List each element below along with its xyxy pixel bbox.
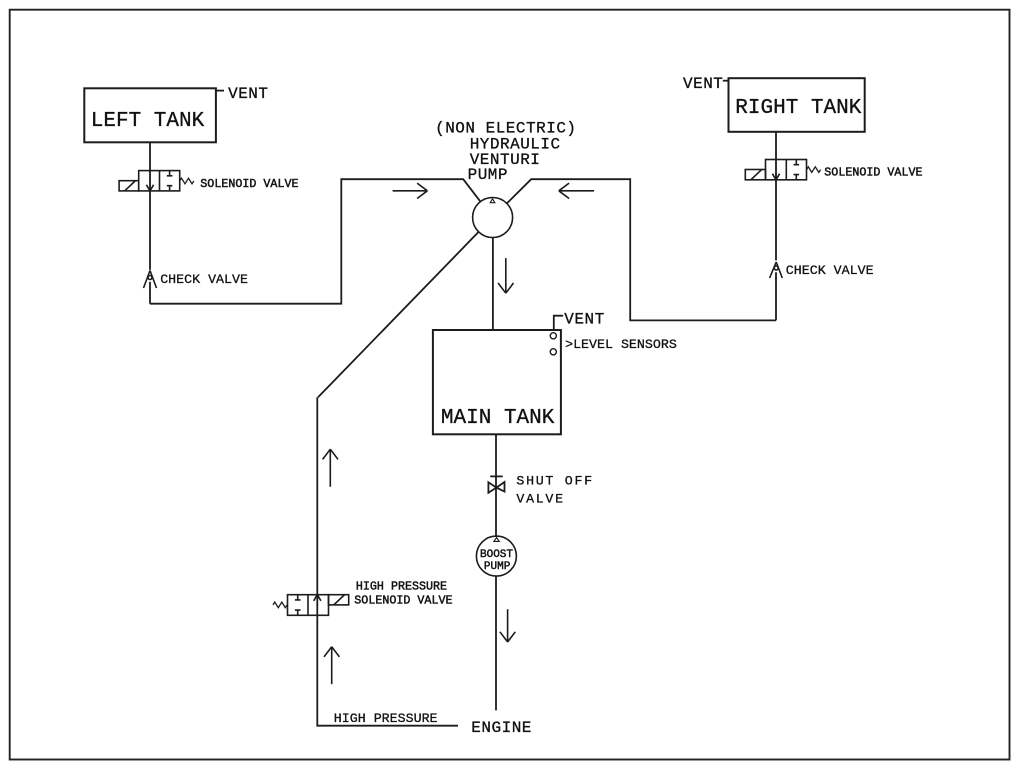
svg-text:MAIN TANK: MAIN TANK: [441, 407, 555, 430]
svg-text:HIGH PRESSURE: HIGH PRESSURE: [356, 580, 447, 594]
svg-text:ENGINE: ENGINE: [471, 719, 532, 737]
svg-text:>LEVEL SENSORS: >LEVEL SENSORS: [565, 337, 677, 352]
svg-text:SOLENOID VALVE: SOLENOID VALVE: [354, 594, 452, 608]
svg-text:HIGH PRESSURE: HIGH PRESSURE: [334, 711, 438, 726]
svg-text:BOOST: BOOST: [480, 549, 513, 561]
svg-text:LEFT TANK: LEFT TANK: [91, 110, 205, 133]
svg-text:CHECK VALVE: CHECK VALVE: [160, 272, 248, 287]
svg-text:VALVE: VALVE: [516, 492, 564, 507]
svg-text:VENT: VENT: [683, 75, 723, 93]
svg-text:SOLENOID VALVE: SOLENOID VALVE: [824, 166, 922, 180]
svg-text:PUMP: PUMP: [468, 166, 508, 184]
svg-text:VENT: VENT: [228, 85, 268, 103]
svg-text:SHUT OFF: SHUT OFF: [516, 474, 593, 489]
svg-text:CHECK VALVE: CHECK VALVE: [786, 263, 874, 278]
svg-text:SOLENOID VALVE: SOLENOID VALVE: [200, 177, 298, 191]
svg-text:RIGHT TANK: RIGHT TANK: [735, 97, 861, 120]
svg-text:PUMP: PUMP: [484, 561, 511, 573]
svg-text:VENT: VENT: [564, 310, 604, 328]
